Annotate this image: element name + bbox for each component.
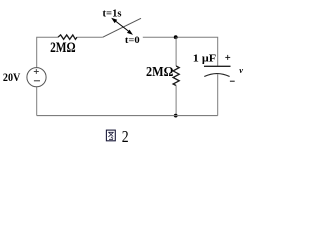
svg-text:t=0: t=0 <box>125 36 140 46</box>
capacitor C1 curved plate <box>204 74 229 77</box>
wire middle branch lower <box>175 86 177 116</box>
wire top-left horizontal <box>37 37 58 67</box>
wire left lower <box>36 87 38 116</box>
svg-text:2: 2 <box>122 127 129 146</box>
label − of capacitor <box>230 80 235 82</box>
label + of capacitor <box>225 55 230 60</box>
svg-text:2MΩ: 2MΩ <box>50 40 76 56</box>
voltage source V1 circle <box>27 68 46 87</box>
wire bottom <box>37 115 218 117</box>
switch motion arrow <box>112 19 131 34</box>
caption 图 glyph <box>106 130 115 141</box>
svg-text:t=1s: t=1s <box>103 9 122 20</box>
resistor R2 (2MΩ middle) <box>173 66 179 86</box>
wire resistor to switch <box>77 36 103 38</box>
wire switch to top-right corner <box>143 37 218 66</box>
svg-text:1 μF: 1 μF <box>193 52 217 64</box>
svg-text:2MΩ: 2MΩ <box>146 65 173 80</box>
svg-text:20V: 20V <box>3 70 21 84</box>
voltage source minus sign <box>34 80 40 82</box>
wire capacitor to bottom <box>217 74 219 115</box>
capacitor C1 top plate <box>204 65 231 67</box>
svg-text:v: v <box>239 65 243 75</box>
node bottom junction <box>174 114 178 118</box>
resistor R1 (2MΩ top) <box>58 35 77 39</box>
voltage source plus sign <box>34 69 39 74</box>
node top junction <box>174 35 178 39</box>
switch S1 blade <box>103 18 141 37</box>
wire middle branch upper <box>175 37 177 66</box>
